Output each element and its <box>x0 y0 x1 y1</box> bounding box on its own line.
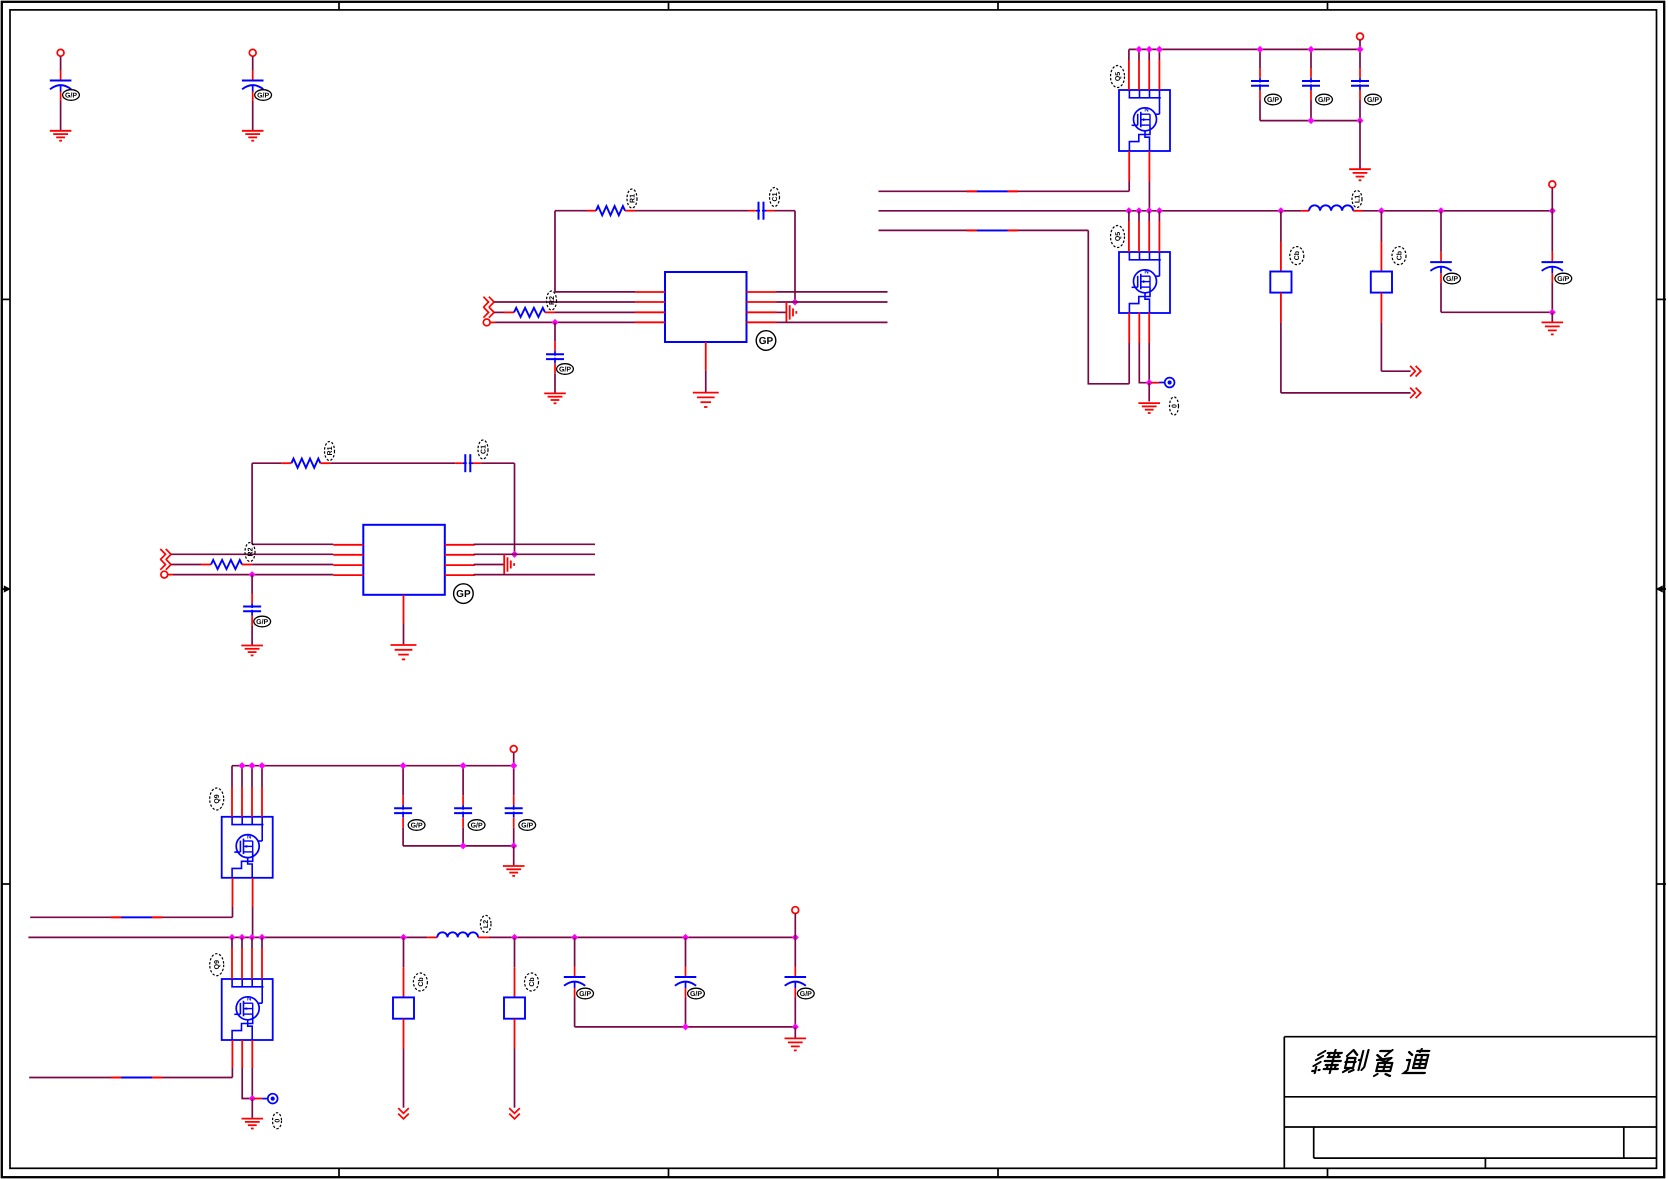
svg-text:C1: C1 <box>480 445 487 454</box>
svg-text:L2: L2 <box>483 920 490 928</box>
svg-text:Q9: Q9 <box>214 960 221 969</box>
svg-text:0: 0 <box>1171 404 1178 408</box>
svg-text:N: N <box>247 833 251 840</box>
svg-text:G/P: G/P <box>559 365 571 373</box>
svg-text:N: N <box>1144 269 1148 276</box>
svg-text:G/P: G/P <box>1318 96 1330 104</box>
svg-text:GP: GP <box>456 589 471 600</box>
svg-text:G/P: G/P <box>65 91 77 99</box>
svg-text:R2: R2 <box>247 547 254 556</box>
svg-text:Q5: Q5 <box>1115 232 1122 241</box>
svg-text:R2: R2 <box>549 296 556 305</box>
svg-text:R1: R1 <box>629 194 636 203</box>
svg-text:Cb: Cb <box>1293 251 1301 260</box>
svg-text:G/P: G/P <box>411 821 423 829</box>
svg-text:L1: L1 <box>1354 195 1361 203</box>
svg-text:0: 0 <box>274 1119 281 1123</box>
svg-text:N: N <box>1144 107 1148 114</box>
svg-text:N: N <box>247 996 251 1003</box>
svg-text:G/P: G/P <box>1557 275 1569 283</box>
svg-text:C1: C1 <box>772 192 779 201</box>
svg-text:G/P: G/P <box>1367 96 1379 104</box>
svg-text:GP: GP <box>759 336 774 347</box>
svg-text:G/P: G/P <box>521 821 533 829</box>
svg-text:G/P: G/P <box>257 91 269 99</box>
svg-text:G/P: G/P <box>1267 96 1279 104</box>
svg-text:Cb: Cb <box>1395 251 1403 260</box>
svg-text:R1: R1 <box>327 446 334 455</box>
svg-text:Cb: Cb <box>417 977 425 986</box>
svg-text:G/P: G/P <box>579 990 591 998</box>
svg-text:Q9: Q9 <box>214 794 221 803</box>
svg-text:G/P: G/P <box>800 990 812 998</box>
svg-text:Cb: Cb <box>528 977 536 986</box>
svg-text:G/P: G/P <box>690 990 702 998</box>
svg-text:G/P: G/P <box>471 821 483 829</box>
svg-text:Q5: Q5 <box>1115 72 1122 81</box>
svg-text:G/P: G/P <box>256 618 268 626</box>
svg-text:G/P: G/P <box>1446 275 1458 283</box>
